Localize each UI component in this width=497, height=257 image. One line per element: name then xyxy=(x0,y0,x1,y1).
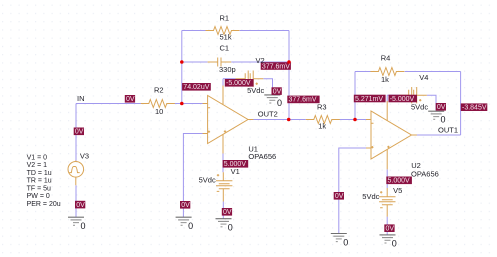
bias label 0V above V3 xyxy=(74,128,84,136)
svg-text:0V: 0V xyxy=(181,202,190,209)
svg-text:V2: V2 xyxy=(256,56,265,65)
wire U2 plus input xyxy=(339,148,367,233)
bias label 377.6mV top xyxy=(261,62,291,70)
svg-text:0V: 0V xyxy=(335,193,344,200)
wire V4 left lead horizontal xyxy=(387,94,399,96)
bias label 0V above V3 ground xyxy=(75,201,85,209)
capacitor C1 body xyxy=(208,58,232,67)
battery V5 plates xyxy=(379,197,395,205)
svg-text:OUT1: OUT1 xyxy=(438,125,458,134)
svg-text:TF = 5u: TF = 5u xyxy=(27,185,51,192)
svg-text:PER = 20u: PER = 20u xyxy=(27,201,61,208)
op-amp U2 input polarity marks xyxy=(371,123,390,148)
wire C1 row right xyxy=(231,61,289,63)
resistor R3 body xyxy=(306,116,340,124)
svg-text:V4: V4 xyxy=(419,73,428,82)
svg-text:0V: 0V xyxy=(75,129,84,136)
wire feedback right vertical xyxy=(288,31,290,120)
junction node C1 right xyxy=(287,60,291,64)
op-amp U2 triangle xyxy=(371,111,412,159)
svg-text:V1 = 0: V1 = 0 xyxy=(27,154,48,161)
ground below U2 plus input xyxy=(331,234,347,242)
wire R4 row right xyxy=(405,71,461,73)
svg-text:0: 0 xyxy=(228,223,233,233)
svg-text:10: 10 xyxy=(155,107,163,116)
resistor R1 body xyxy=(206,27,240,35)
svg-text:5Vdc: 5Vdc xyxy=(411,103,428,112)
bias label 0V at V4 ground xyxy=(436,103,446,111)
wire V2 right to ground xyxy=(263,79,272,95)
battery V5 leads xyxy=(386,188,388,217)
battery V5 polarity marks xyxy=(380,191,383,208)
wire V3 top vertical xyxy=(75,104,77,162)
svg-text:51k: 51k xyxy=(220,33,232,42)
wire R3 to U2 inverting input xyxy=(340,119,367,121)
bias label -5.000V at V2 xyxy=(225,79,254,87)
op-amp U1 triangle xyxy=(208,96,248,144)
V3 parameter text block xyxy=(27,154,61,208)
wire V3 bottom to ground xyxy=(75,185,77,217)
svg-text:V2 = 1: V2 = 1 xyxy=(27,162,48,169)
source V3 circle xyxy=(68,162,84,178)
wire OUT1 right vertical xyxy=(460,72,462,136)
battery V4 leads xyxy=(399,94,427,96)
wire V4 right to ground xyxy=(427,95,436,110)
bias label 5.000V at V5 xyxy=(386,177,412,185)
svg-text:0V: 0V xyxy=(76,202,85,209)
svg-text:TD = 1u: TD = 1u xyxy=(27,170,52,177)
wire U1 V- pin to V2 xyxy=(222,79,224,86)
svg-text:V1: V1 xyxy=(231,167,240,176)
svg-text:0: 0 xyxy=(441,115,446,125)
battery V1 leads xyxy=(222,172,224,201)
svg-text:74.02uV: 74.02uV xyxy=(183,84,209,91)
svg-text:5Vdc: 5Vdc xyxy=(362,192,379,201)
junction node OUT2 xyxy=(287,118,291,122)
bias label 74.02uV xyxy=(182,83,211,91)
wire U1 output row xyxy=(253,119,306,121)
svg-text:-3.845V: -3.845V xyxy=(462,105,487,112)
svg-text:0: 0 xyxy=(81,221,86,231)
wire R1 row right xyxy=(240,30,289,32)
wire U2 V+ pin to V5 xyxy=(386,169,388,188)
svg-text:OPA656: OPA656 xyxy=(411,169,439,178)
junction node C1 left xyxy=(180,60,184,64)
svg-text:1k: 1k xyxy=(381,75,389,84)
svg-text:OPA656: OPA656 xyxy=(248,152,276,161)
svg-text:0: 0 xyxy=(188,221,193,231)
bias label 5.000V at V1 xyxy=(223,160,249,168)
svg-text:0V: 0V xyxy=(437,104,446,111)
resistor R4 body xyxy=(370,68,404,76)
bias label 0V at V5 ground xyxy=(384,224,394,232)
source V3 leads xyxy=(75,161,77,186)
op-amp U2 pins xyxy=(366,101,417,169)
ground below V3 xyxy=(68,217,84,225)
bias label 0V at U1 plus ground xyxy=(180,201,190,209)
junction node R3/R4 xyxy=(353,118,357,122)
battery V1 plates xyxy=(216,181,232,189)
svg-text:R3: R3 xyxy=(317,102,327,111)
battery V2 leads xyxy=(236,78,264,80)
wire R1 row left xyxy=(182,30,206,32)
wire U1 plus input xyxy=(183,134,203,218)
wire feedback left vertical xyxy=(181,31,183,104)
wire R4 left vertical xyxy=(354,72,356,120)
svg-text:330p: 330p xyxy=(219,65,236,74)
ground below V1 xyxy=(216,219,232,227)
wire V1 to ground xyxy=(222,202,224,219)
resistor R2 body xyxy=(141,100,175,108)
ground below V5 xyxy=(380,235,396,243)
wire U2 output row xyxy=(417,134,461,136)
svg-text:377.6mV: 377.6mV xyxy=(289,97,317,104)
svg-text:R2: R2 xyxy=(154,85,164,94)
wire R2 to U1 inverting input xyxy=(175,103,204,105)
svg-text:377.6mV: 377.6mV xyxy=(262,63,290,70)
source V3 pulse waveform xyxy=(69,167,79,173)
op-amp U1 input polarity marks xyxy=(208,108,227,133)
svg-text:PW = 0: PW = 0 xyxy=(27,193,50,200)
svg-text:5Vdc: 5Vdc xyxy=(247,86,264,95)
battery V2 plus mark xyxy=(256,83,258,85)
svg-text:0: 0 xyxy=(343,237,348,247)
wire U1 V+ pin to V1 xyxy=(222,154,224,173)
svg-text:0: 0 xyxy=(392,239,397,249)
ground right of V2 xyxy=(264,95,280,103)
wire U2 V- pin to V4 xyxy=(386,95,388,102)
svg-text:C1: C1 xyxy=(220,43,230,52)
svg-text:R4: R4 xyxy=(381,53,391,62)
bias label 377.6mV at OUT2 xyxy=(287,96,319,104)
svg-text:0: 0 xyxy=(277,98,282,108)
bias label 0V at V1 ground xyxy=(222,208,232,216)
svg-text:5Vdc: 5Vdc xyxy=(199,175,216,184)
wire V2 left lead horizontal xyxy=(223,78,236,80)
svg-text:0V: 0V xyxy=(223,209,232,216)
battery V4 plates xyxy=(409,87,417,103)
bias label 0V on IN wire xyxy=(125,95,135,103)
svg-text:R1: R1 xyxy=(220,13,230,22)
bias label -5.000V at V4 xyxy=(389,95,418,103)
bias label 5.271mV xyxy=(354,95,386,103)
bias label 0V at U2 plus ground xyxy=(334,192,344,200)
bias label -3.845V at OUT1 xyxy=(461,103,488,111)
svg-text:5.000V: 5.000V xyxy=(388,178,411,185)
battery V2 plates xyxy=(245,71,253,87)
wire IN horizontal xyxy=(76,103,141,105)
svg-text:IN: IN xyxy=(77,94,85,103)
battery V1 polarity marks xyxy=(217,174,220,191)
wire V5 to ground xyxy=(386,217,388,235)
bias label 0V at V2 ground xyxy=(272,87,282,95)
svg-text:V3: V3 xyxy=(80,152,89,161)
wire C1 row left xyxy=(182,61,208,63)
svg-text:1k: 1k xyxy=(318,122,326,131)
svg-text:0V: 0V xyxy=(273,88,282,95)
svg-text:0V: 0V xyxy=(386,226,395,233)
svg-text:V5: V5 xyxy=(393,186,402,195)
op-amp U1 pins xyxy=(203,86,254,154)
svg-text:OUT2: OUT2 xyxy=(258,110,278,119)
svg-text:TR = 1u: TR = 1u xyxy=(27,178,52,185)
wire R4 row left xyxy=(355,71,371,73)
ground below U1 plus input xyxy=(176,217,192,225)
svg-text:0V: 0V xyxy=(126,96,135,103)
junction node R2/feedback xyxy=(180,102,184,106)
ground right of V4 xyxy=(428,111,444,119)
battery V4 plus mark xyxy=(419,99,421,101)
svg-text:5.271mV: 5.271mV xyxy=(355,96,383,103)
